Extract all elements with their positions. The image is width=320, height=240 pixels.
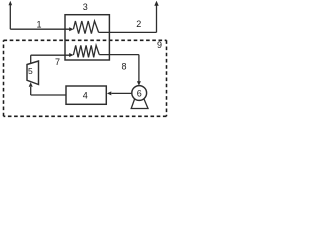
svg-text:8: 8	[121, 61, 126, 71]
svg-text:6: 6	[137, 88, 142, 98]
svg-text:7: 7	[55, 57, 60, 67]
svg-text:3: 3	[83, 2, 88, 12]
svg-text:9: 9	[157, 40, 162, 50]
svg-text:4: 4	[83, 91, 88, 101]
svg-text:1: 1	[36, 19, 41, 29]
svg-text:5: 5	[28, 66, 33, 76]
svg-text:2: 2	[136, 19, 141, 29]
